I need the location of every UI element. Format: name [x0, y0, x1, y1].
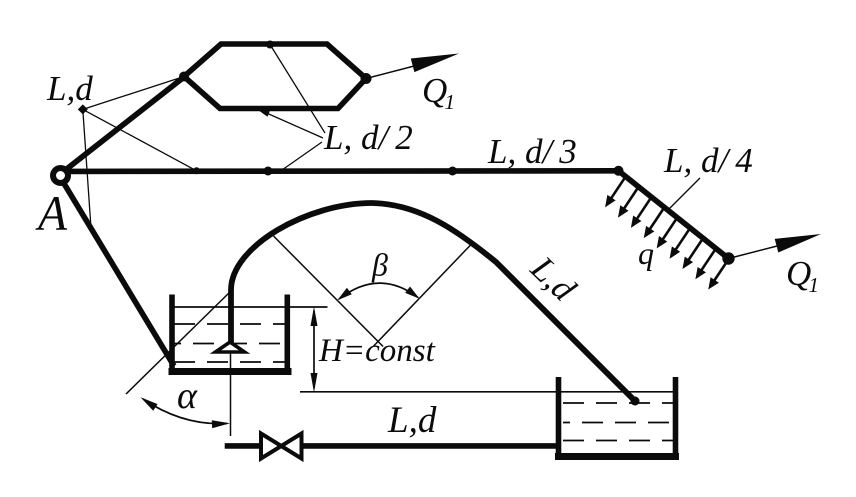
outflow line to Q1 bottom: [729, 245, 784, 259]
dot hexagon top edge: [266, 41, 274, 49]
beta arc: [339, 283, 418, 299]
svg-text:L, d/ 2: L, d/ 2: [323, 118, 413, 157]
pipe L,d/4: [619, 171, 729, 259]
svg-text:β: β: [371, 247, 388, 283]
leader arrowhead at hexagon bottom edge: [258, 110, 270, 117]
leader L,d/2 to hexagon top edge: [270, 45, 325, 134]
hexagon loop pipes: [184, 44, 366, 109]
pipe main horizontal L,d: [67, 168, 619, 174]
beta arrowhead right: [405, 287, 419, 299]
end dot pipe L,d/4: [722, 252, 734, 264]
left tank water dashes row 2: [174, 343, 287, 345]
bottom reference line: [300, 391, 674, 393]
arrowhead Q1 top: [411, 54, 459, 73]
leader L,d to pipe A-tank: [83, 109, 91, 228]
junction dot hexagon left: [179, 72, 189, 82]
right tank water dashes row 2: [563, 422, 673, 424]
junction dot main pipe end: [614, 166, 624, 176]
svg-text:L,d: L,d: [387, 400, 437, 441]
dot main pipe leader point: [193, 167, 200, 174]
left tank right wall: [284, 295, 290, 372]
right tank right wall: [673, 377, 679, 456]
leader L,d to main pipe: [83, 109, 197, 170]
left tank bottom: [169, 368, 292, 375]
siphon pipe end dot: [631, 397, 640, 406]
right tank bottom: [555, 453, 679, 460]
svg-text:Q: Q: [422, 71, 447, 110]
H arrowhead up: [311, 307, 318, 327]
left tank water dashes row 3: [174, 361, 287, 363]
angle alpha construction line: [126, 289, 233, 394]
H arrowhead down: [311, 373, 318, 393]
valve: [261, 434, 302, 459]
right tank water dashes row 3: [563, 440, 673, 442]
svg-text:A: A: [35, 185, 67, 241]
beta radius line right: [373, 244, 472, 347]
junction dot main pipe 2: [448, 167, 457, 176]
label point diamond L,d: [78, 104, 88, 114]
right tank left wall: [556, 377, 562, 456]
beta radius line left: [274, 236, 384, 347]
vertical thin line below tank: [230, 353, 232, 436]
leader L,d to pipe A-hexagon: [83, 77, 184, 110]
svg-text:L,d: L,d: [46, 69, 93, 108]
distributed outflow q hatch arrows: [607, 178, 728, 287]
siphon pipe: vertical, crest arc, straight descent L,d: [231, 203, 635, 401]
svg-text:L, d/ 4: L, d/ 4: [663, 141, 753, 180]
beta arrowhead left: [337, 288, 351, 300]
svg-text:Q: Q: [786, 254, 811, 293]
svg-text:1: 1: [445, 90, 456, 114]
alpha arc: [143, 399, 227, 424]
alpha arrowhead right: [212, 420, 230, 428]
right tank water dashes row 1: [563, 402, 673, 404]
alpha arrowhead upper: [141, 397, 158, 410]
svg-text:q: q: [638, 235, 654, 271]
svg-text:L, d/ 3: L, d/ 3: [487, 132, 577, 171]
leader L,d/4 to pipe: [669, 178, 700, 209]
left tank water dashes row 1: [174, 323, 287, 325]
arrowhead Q1 bottom: [775, 234, 821, 253]
pipe A-hexagon L,d: [66, 77, 184, 170]
left tank water level line: [174, 306, 328, 308]
intake strainer in left tank: [216, 342, 245, 352]
leader L,d/2 to hexagon bottom edge: [262, 111, 323, 138]
junction dot main pipe 1: [264, 167, 273, 176]
svg-text:α: α: [177, 375, 198, 417]
leader L,d/2 to main pipe: [282, 142, 322, 170]
pipe A-tank L,d: [64, 184, 174, 367]
node A: [53, 168, 68, 183]
bottom pipe right segment L,d: [304, 443, 562, 449]
left tank left wall: [169, 295, 175, 372]
junction dot hexagon right: [361, 73, 372, 84]
svg-text:H=const: H=const: [318, 333, 436, 369]
svg-text:1: 1: [809, 273, 820, 297]
H dimension line: [313, 311, 315, 388]
outflow line to Q1 top: [366, 65, 420, 79]
bottom pipe left segment: [225, 443, 261, 449]
